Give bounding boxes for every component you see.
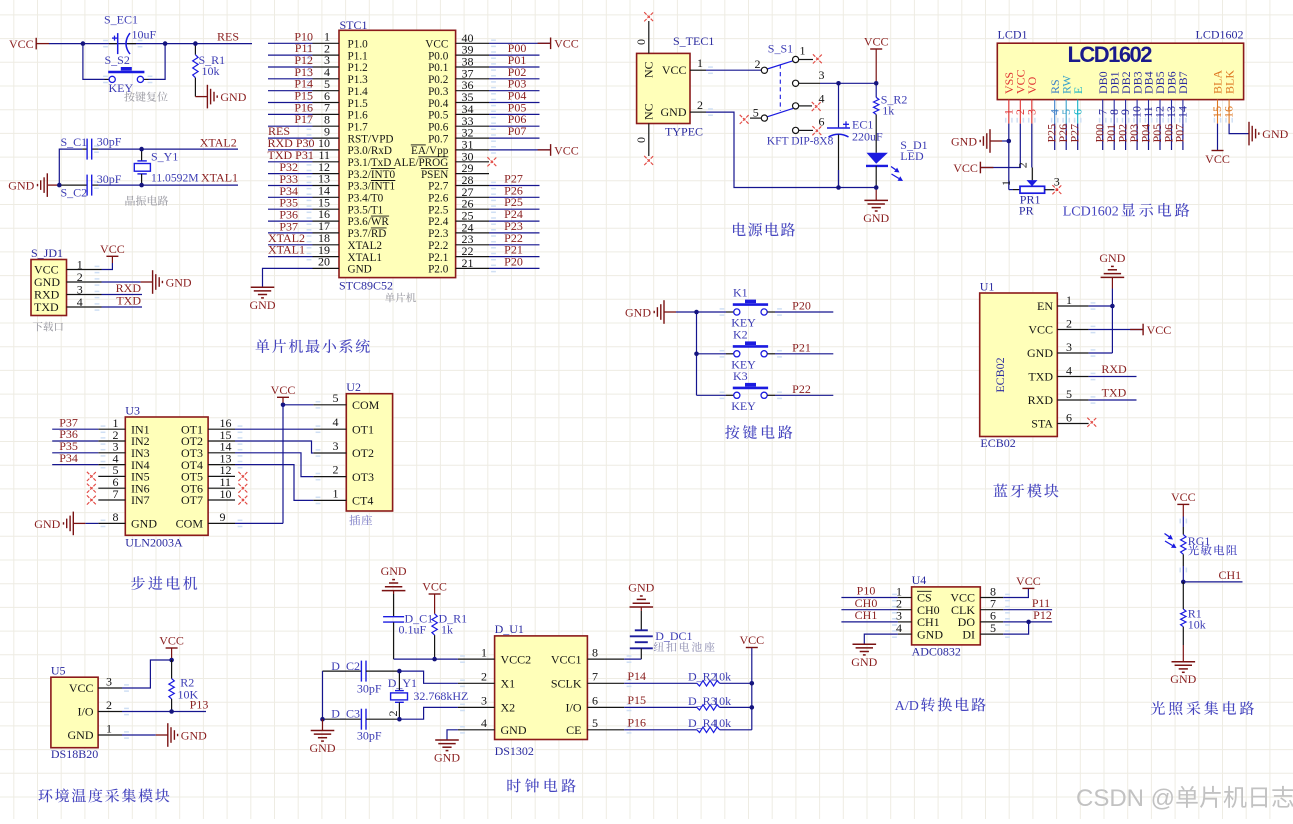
- svg-text:OT7: OT7: [181, 493, 203, 507]
- svg-text:A/D: A/D: [895, 699, 919, 714]
- svg-text:10k: 10k: [713, 670, 731, 684]
- svg-text:GND: GND: [166, 275, 192, 289]
- svg-text:VO: VO: [1025, 76, 1039, 94]
- svg-text:6: 6: [819, 115, 825, 129]
- svg-text:NC: NC: [642, 61, 656, 78]
- svg-text:LCD1602: LCD1602: [1196, 28, 1244, 42]
- svg-text:3: 3: [1024, 109, 1038, 115]
- svg-text:GND: GND: [951, 134, 977, 148]
- svg-text:E: E: [1071, 87, 1085, 94]
- svg-text:GND: GND: [1170, 672, 1196, 686]
- svg-text:ADC0832: ADC0832: [912, 645, 961, 659]
- svg-text:P1.1: P1.1: [348, 50, 368, 62]
- svg-text:3: 3: [481, 694, 487, 708]
- svg-text:3: 3: [819, 68, 825, 82]
- svg-text:C: C: [695, 125, 703, 139]
- svg-text:6: 6: [592, 694, 598, 708]
- svg-text:P3.0/RxD: P3.0/RxD: [348, 145, 392, 157]
- svg-text:0: 0: [634, 39, 648, 45]
- svg-text:PR: PR: [1019, 204, 1034, 218]
- svg-text:30pF: 30pF: [357, 729, 382, 743]
- svg-text:XTAL2: XTAL2: [200, 136, 237, 150]
- svg-text:K3: K3: [733, 369, 748, 383]
- svg-text:11.0592M: 11.0592M: [151, 171, 199, 184]
- svg-text:P0.2: P0.2: [428, 74, 448, 86]
- svg-text:14: 14: [1176, 106, 1190, 118]
- svg-text:GND: GND: [1027, 346, 1053, 360]
- svg-text:P07: P07: [508, 124, 527, 138]
- svg-text:3: 3: [1054, 175, 1060, 189]
- svg-text:0.1uF: 0.1uF: [399, 623, 427, 637]
- svg-text:U3: U3: [125, 404, 140, 418]
- svg-text:P0.1: P0.1: [428, 62, 448, 74]
- svg-text:P21: P21: [792, 341, 811, 355]
- svg-text:P2.4: P2.4: [428, 216, 449, 228]
- svg-text:KFT DIP-8X8: KFT DIP-8X8: [767, 136, 834, 148]
- svg-text:P13: P13: [190, 698, 209, 712]
- svg-text:0: 0: [634, 137, 648, 143]
- svg-text:S_C1: S_C1: [61, 135, 88, 149]
- svg-text:30pF: 30pF: [97, 172, 122, 186]
- svg-text:P17: P17: [294, 112, 313, 126]
- svg-text:XTAL1: XTAL1: [348, 252, 383, 264]
- svg-text:S_TEC1: S_TEC1: [673, 34, 714, 48]
- svg-text:LCD1602: LCD1602: [1063, 204, 1119, 219]
- svg-text:NC: NC: [642, 103, 656, 120]
- svg-text:GND: GND: [250, 298, 276, 312]
- svg-text:1: 1: [1066, 293, 1072, 307]
- svg-text:VCC: VCC: [159, 634, 184, 648]
- svg-text:STA: STA: [1031, 417, 1053, 431]
- svg-text:P0.6: P0.6: [428, 121, 449, 133]
- svg-text:XTAL2: XTAL2: [348, 240, 383, 252]
- svg-text:VCC2: VCC2: [501, 652, 532, 666]
- svg-text:P20: P20: [504, 254, 523, 268]
- svg-text:I/O: I/O: [566, 701, 582, 715]
- svg-text:CE: CE: [566, 723, 581, 737]
- svg-text:VCC: VCC: [554, 37, 579, 51]
- svg-text:1: 1: [697, 56, 703, 70]
- svg-text:6: 6: [1070, 109, 1084, 115]
- svg-text:RXD: RXD: [1101, 362, 1127, 376]
- svg-text:VCC: VCC: [953, 161, 978, 175]
- svg-text:TXD: TXD: [116, 294, 141, 308]
- svg-text:VCC: VCC: [425, 39, 448, 51]
- svg-text:EN: EN: [1037, 299, 1053, 313]
- svg-text:5: 5: [592, 716, 598, 730]
- svg-text:P1.4: P1.4: [348, 86, 369, 98]
- svg-text:S_EC1: S_EC1: [104, 13, 138, 27]
- svg-text:1k: 1k: [441, 623, 453, 637]
- svg-text:VCC: VCC: [1016, 574, 1041, 588]
- svg-text:P0.5: P0.5: [428, 110, 449, 122]
- svg-text:P1.7: P1.7: [348, 121, 369, 133]
- svg-text:P3.7/RD: P3.7/RD: [348, 228, 387, 240]
- svg-text:P16: P16: [627, 716, 646, 730]
- svg-text:VCC: VCC: [100, 242, 125, 256]
- svg-text:S_C2: S_C2: [61, 186, 88, 200]
- svg-text:5: 5: [1066, 387, 1072, 401]
- svg-text:5: 5: [753, 105, 759, 119]
- svg-text:10uF: 10uF: [132, 28, 157, 42]
- svg-text:P2.3: P2.3: [428, 228, 449, 240]
- svg-text:VCC: VCC: [1171, 490, 1196, 504]
- svg-text:1: 1: [106, 722, 112, 736]
- svg-text:2: 2: [481, 670, 487, 684]
- svg-text:S_S2: S_S2: [105, 53, 130, 67]
- svg-text:GND: GND: [625, 305, 651, 319]
- svg-text:4: 4: [481, 716, 487, 730]
- svg-text:GND: GND: [434, 751, 460, 765]
- svg-text:KEY: KEY: [731, 399, 756, 413]
- svg-text:ULN2003A: ULN2003A: [125, 536, 183, 550]
- svg-text:2: 2: [1016, 162, 1030, 168]
- svg-text:P1.0: P1.0: [348, 39, 369, 51]
- svg-text:ECB02: ECB02: [980, 436, 1015, 450]
- svg-text:DI: DI: [962, 627, 975, 641]
- svg-text:P1.2: P1.2: [348, 62, 368, 74]
- svg-text:P34: P34: [59, 451, 78, 465]
- svg-text:TXD: TXD: [34, 300, 59, 314]
- svg-text:X2: X2: [501, 701, 516, 715]
- svg-text:D_C3: D_C3: [331, 707, 360, 721]
- svg-text:GND: GND: [68, 728, 94, 742]
- svg-text:LED: LED: [900, 149, 924, 163]
- svg-text:P1.6: P1.6: [348, 110, 369, 122]
- svg-text:GND: GND: [863, 211, 889, 225]
- svg-text:P1.3: P1.3: [348, 74, 369, 86]
- svg-text:5: 5: [333, 391, 339, 405]
- svg-text:EA/Vpp: EA/Vpp: [411, 145, 449, 157]
- svg-text:4: 4: [333, 415, 339, 429]
- svg-text:2: 2: [755, 57, 761, 71]
- svg-text:P3.6/WR: P3.6/WR: [348, 216, 390, 228]
- svg-text:VCC: VCC: [1147, 323, 1172, 337]
- svg-text:P20: P20: [792, 299, 811, 313]
- svg-text:10k: 10k: [202, 64, 220, 78]
- svg-text:TXD: TXD: [1028, 370, 1053, 384]
- svg-text:P07: P07: [1173, 124, 1187, 143]
- svg-text:D_Y1: D_Y1: [388, 676, 417, 690]
- svg-text:RXD: RXD: [1028, 393, 1054, 407]
- svg-text:CH1: CH1: [1219, 568, 1242, 582]
- svg-text:CT4: CT4: [352, 494, 373, 508]
- svg-text:P27: P27: [1068, 124, 1082, 143]
- svg-text:OT2: OT2: [352, 446, 374, 460]
- svg-text:D_DC1: D_DC1: [655, 629, 692, 643]
- svg-text:GND: GND: [220, 90, 246, 104]
- svg-text:SCLK: SCLK: [551, 677, 582, 691]
- svg-text:P12: P12: [1033, 608, 1052, 622]
- svg-text:TXD: TXD: [1102, 386, 1127, 400]
- svg-text:VCC: VCC: [9, 37, 34, 51]
- svg-text:S_S1: S_S1: [768, 42, 793, 56]
- svg-text:3: 3: [1066, 340, 1072, 354]
- svg-text:P2.1: P2.1: [428, 252, 448, 264]
- svg-text:4: 4: [896, 621, 902, 635]
- svg-text:XTAL1: XTAL1: [201, 170, 238, 184]
- svg-text:10: 10: [220, 487, 232, 501]
- svg-text:10k: 10k: [1188, 618, 1206, 632]
- svg-text:P0.7: P0.7: [428, 133, 449, 145]
- svg-text:P3.2/INT0: P3.2/INT0: [348, 169, 396, 181]
- svg-text:X1: X1: [501, 677, 516, 691]
- svg-text:ECB02: ECB02: [993, 357, 1007, 392]
- svg-text:K1: K1: [733, 286, 748, 300]
- svg-text:30pF: 30pF: [97, 134, 122, 148]
- svg-text:2: 2: [697, 98, 703, 112]
- svg-text:GND: GND: [1099, 251, 1125, 265]
- svg-text:GND: GND: [851, 655, 877, 669]
- svg-text:P2.2: P2.2: [428, 240, 448, 252]
- svg-text:16: 16: [1222, 106, 1236, 118]
- svg-text:P0.4: P0.4: [428, 98, 449, 110]
- svg-text:7: 7: [592, 670, 598, 684]
- svg-text:P2.7: P2.7: [428, 181, 449, 193]
- svg-text:P14: P14: [627, 669, 646, 683]
- svg-text:2: 2: [1066, 317, 1072, 331]
- svg-text:21: 21: [462, 256, 474, 270]
- svg-text:VCC: VCC: [1205, 152, 1230, 166]
- svg-text:10k: 10k: [713, 716, 731, 730]
- svg-text:DS18B20: DS18B20: [51, 747, 98, 761]
- svg-text:P2.5: P2.5: [428, 204, 449, 216]
- svg-text:GND: GND: [381, 564, 407, 578]
- svg-text:DB7: DB7: [1176, 71, 1190, 94]
- svg-text:GND: GND: [310, 741, 336, 755]
- svg-text:3: 3: [106, 675, 112, 689]
- svg-text:GND: GND: [181, 728, 207, 742]
- svg-text:GND: GND: [1262, 127, 1288, 141]
- svg-text:S_Y1: S_Y1: [151, 150, 178, 164]
- svg-text:P0.0: P0.0: [428, 50, 449, 62]
- svg-text:P0.3: P0.3: [428, 86, 449, 98]
- svg-text:P3.1/TxD: P3.1/TxD: [348, 157, 392, 169]
- svg-text:U1: U1: [980, 280, 995, 294]
- svg-text:PSEN: PSEN: [421, 169, 448, 181]
- svg-text:8: 8: [113, 510, 119, 524]
- svg-text:P2.6: P2.6: [428, 193, 449, 205]
- svg-text:Y: Y: [672, 125, 681, 139]
- svg-text:4: 4: [1066, 364, 1072, 378]
- svg-text:DS1302: DS1302: [495, 744, 534, 758]
- svg-text:LCD1: LCD1: [998, 28, 1028, 42]
- svg-text:3: 3: [333, 439, 339, 453]
- svg-text:4: 4: [77, 295, 83, 309]
- svg-text:30pF: 30pF: [357, 682, 382, 696]
- svg-text:U5: U5: [51, 664, 66, 678]
- svg-text:P3.4/T0: P3.4/T0: [348, 193, 384, 205]
- svg-text:STC89C52: STC89C52: [339, 278, 393, 292]
- svg-text:P15: P15: [627, 693, 646, 707]
- svg-text:GND: GND: [348, 264, 372, 276]
- svg-text:7: 7: [113, 487, 119, 501]
- svg-text:1: 1: [481, 645, 487, 659]
- svg-text:20: 20: [318, 255, 330, 269]
- svg-text:GND: GND: [917, 627, 943, 641]
- svg-text:1k: 1k: [882, 103, 894, 117]
- svg-text:P22: P22: [792, 382, 811, 396]
- svg-text:VCC1: VCC1: [551, 652, 582, 666]
- svg-text:BLK: BLK: [1222, 70, 1236, 94]
- svg-text:1: 1: [333, 486, 339, 500]
- svg-text:U2: U2: [346, 380, 361, 394]
- svg-text:GND: GND: [34, 517, 60, 531]
- svg-text:VCC: VCC: [1028, 323, 1053, 337]
- svg-text:GND: GND: [501, 723, 527, 737]
- svg-text:GND: GND: [661, 105, 687, 119]
- svg-text:8: 8: [592, 645, 598, 659]
- svg-text:5: 5: [990, 621, 996, 635]
- svg-text:VCC: VCC: [271, 383, 296, 397]
- svg-text:XTAL1: XTAL1: [268, 243, 305, 257]
- svg-text:E: E: [688, 125, 695, 139]
- svg-text:OT3: OT3: [352, 470, 374, 484]
- svg-text:1: 1: [999, 180, 1013, 186]
- svg-text:CH1: CH1: [855, 608, 878, 622]
- svg-text:VCC: VCC: [69, 681, 94, 695]
- svg-text:VCC: VCC: [864, 35, 889, 49]
- svg-text:ALE/PROG: ALE/PROG: [394, 157, 449, 169]
- svg-text:GND: GND: [8, 179, 34, 193]
- svg-text:2: 2: [386, 711, 400, 717]
- svg-text:S_JD1: S_JD1: [31, 246, 63, 260]
- svg-text:D_U1: D_U1: [495, 622, 524, 636]
- svg-text:I/O: I/O: [78, 705, 94, 719]
- svg-text:P2.0: P2.0: [428, 264, 449, 276]
- svg-text:IN7: IN7: [131, 493, 150, 507]
- svg-text:U4: U4: [912, 573, 927, 587]
- svg-text:P3.5/T1: P3.5/T1: [348, 204, 384, 216]
- svg-text:GND: GND: [131, 517, 157, 531]
- svg-text:9: 9: [220, 510, 226, 524]
- svg-text:RST/VPD: RST/VPD: [348, 133, 394, 145]
- svg-text:P3.3/INT1: P3.3/INT1: [348, 181, 396, 193]
- svg-text:RES: RES: [217, 29, 239, 43]
- svg-text:VCC: VCC: [422, 580, 447, 594]
- svg-text:10k: 10k: [713, 694, 731, 708]
- svg-text:KEY: KEY: [109, 81, 134, 95]
- svg-text:COM: COM: [352, 398, 380, 412]
- svg-text:1: 1: [800, 44, 806, 58]
- svg-text:2: 2: [106, 698, 112, 712]
- svg-text:GND: GND: [628, 581, 654, 595]
- svg-text:K2: K2: [733, 327, 748, 341]
- svg-text:P1.5: P1.5: [348, 98, 369, 110]
- svg-text:220uF: 220uF: [852, 129, 883, 143]
- svg-text:6: 6: [1066, 411, 1072, 425]
- svg-text:VCC: VCC: [554, 143, 579, 157]
- svg-text:COM: COM: [176, 517, 204, 531]
- svg-text:32.768kHZ: 32.768kHZ: [413, 689, 468, 703]
- svg-text:2: 2: [333, 463, 339, 477]
- svg-text:4: 4: [819, 91, 825, 105]
- svg-text:LCD1602: LCD1602: [1068, 42, 1153, 67]
- svg-text:VCC: VCC: [662, 63, 687, 77]
- svg-text:CSDN @: CSDN @: [1076, 785, 1175, 812]
- svg-text:OT1: OT1: [352, 422, 374, 436]
- svg-text:RG1: RG1: [1188, 534, 1211, 548]
- svg-text:VCC: VCC: [739, 633, 764, 647]
